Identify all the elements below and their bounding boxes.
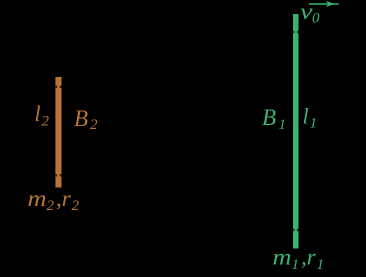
label B2	[74, 106, 98, 133]
rod 1 joint notch lower	[293, 229, 295, 231]
svg-text:B: B	[74, 106, 88, 131]
svg-text:l: l	[303, 104, 309, 129]
svg-text:1: 1	[292, 257, 300, 273]
rod 2 (orange conducting rod)	[55, 77, 61, 188]
rod 2 joint notch lower	[55, 174, 57, 176]
svg-text:,r: ,r	[56, 186, 72, 211]
svg-text:1: 1	[310, 116, 318, 132]
label l2	[35, 101, 50, 129]
rod 2 joint notch upper	[55, 86, 57, 88]
rod 1 joint notch upper	[293, 31, 295, 33]
label l1	[303, 104, 318, 132]
label B1	[262, 105, 286, 133]
svg-text:2: 2	[72, 198, 80, 214]
svg-text:B: B	[262, 105, 276, 130]
label m1 ,r1	[273, 245, 325, 274]
svg-text:2: 2	[90, 117, 98, 133]
velocity vector v0 arrow	[309, 1, 339, 7]
svg-text:m: m	[273, 245, 292, 270]
label m2 ,r2	[28, 186, 80, 214]
svg-text:1: 1	[317, 257, 325, 273]
rod 1 (green conducting rod)	[293, 14, 299, 249]
svg-text:2: 2	[47, 198, 55, 214]
svg-text:2: 2	[42, 113, 50, 129]
label v0	[300, 0, 320, 26]
svg-text:,r: ,r	[301, 245, 317, 270]
svg-text:l: l	[35, 101, 41, 126]
svg-text:m: m	[28, 186, 47, 211]
svg-text:1: 1	[279, 117, 287, 133]
svg-text:0: 0	[312, 10, 320, 26]
